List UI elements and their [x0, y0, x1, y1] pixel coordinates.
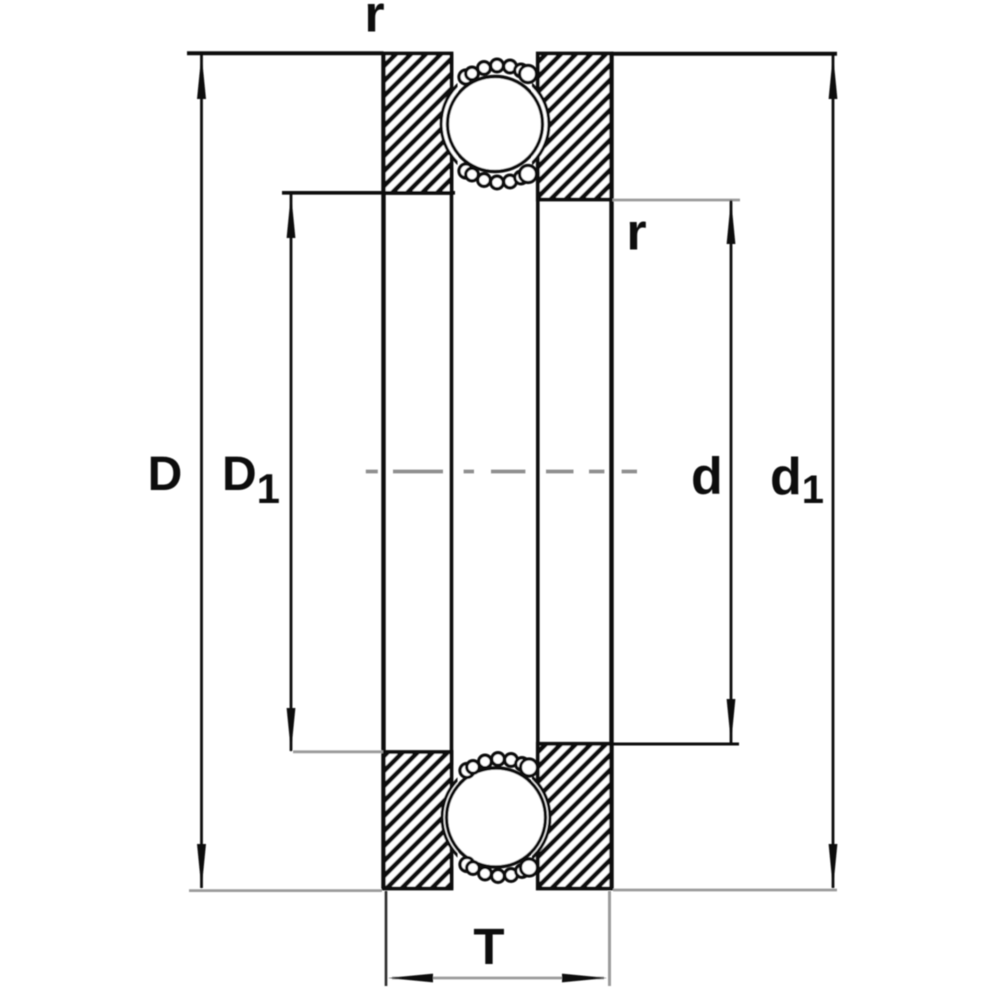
raceway groove upper right [441, 70, 549, 178]
washer outer edge right (d1 silhouette) [609, 54, 613, 889]
svg-text:d: d [691, 448, 723, 506]
dimension line d [730, 201, 733, 744]
svg-text:r: r [364, 0, 384, 44]
leader line bottom right d1 (gray) [613, 889, 837, 892]
cage claws upper ball bottom [459, 164, 537, 189]
raceway groove upper left [441, 70, 549, 178]
dimension line d1 [832, 55, 835, 888]
svg-text:D: D [148, 448, 183, 501]
shaft washer lower section (hatched) [538, 744, 612, 889]
housing washer upper section (hatched) [384, 54, 452, 194]
washer outer edge left (D silhouette) [381, 54, 385, 889]
raceway groove lower right [442, 764, 550, 872]
leader line d bottom [612, 743, 739, 746]
T extension line right [608, 891, 611, 986]
cage claws upper ball top [459, 59, 537, 84]
leader line D1 bottom (gray) [293, 750, 383, 753]
T extension line left [385, 891, 388, 986]
cage claws lower ball top [460, 753, 538, 778]
svg-text:r: r [626, 204, 646, 262]
center axis line (dash-dot) [366, 470, 637, 474]
leader line bottom left D (gray) [189, 889, 382, 892]
housing washer lower section (hatched) [384, 752, 452, 889]
leader line top right (d1) [612, 52, 838, 56]
leader line D1 top [282, 191, 455, 195]
washer bore edge left (D1 silhouette) [450, 54, 454, 889]
dimension line D [200, 55, 203, 888]
raceway groove lower left [442, 764, 550, 872]
shaft washer upper section (hatched) [538, 54, 612, 200]
dimension line D1 [290, 194, 293, 751]
cage claws lower ball bottom [460, 858, 538, 883]
T dimension line [392, 977, 604, 980]
leader line top left (D) [187, 51, 384, 55]
ball upper [448, 77, 543, 172]
svg-text:T: T [473, 918, 504, 975]
leader line d top (gray) [613, 199, 741, 202]
ball lower [447, 768, 546, 867]
washer bore edge right (d silhouette) [536, 54, 540, 889]
